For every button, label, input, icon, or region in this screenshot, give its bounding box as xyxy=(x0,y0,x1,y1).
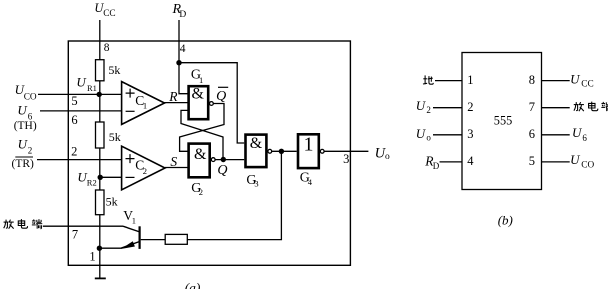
svg-text:Q: Q xyxy=(217,163,227,178)
label discharge terminal (b) xyxy=(574,102,608,112)
label U_2 xyxy=(18,136,33,155)
resistor R2 (5k) xyxy=(96,122,105,148)
wire pin 2 xyxy=(433,107,462,109)
wire pin 1 xyxy=(435,80,462,82)
label C2 xyxy=(135,157,147,176)
svg-text:5: 5 xyxy=(529,154,535,168)
svg-text:(TH): (TH) xyxy=(14,120,37,132)
wire R_D over to G3 input xyxy=(179,63,244,143)
wire R2 to node UR2 and on to R3 xyxy=(99,148,101,190)
svg-text:U: U xyxy=(416,126,427,141)
label U_6 (b) xyxy=(572,125,587,143)
label G3 xyxy=(246,173,258,189)
svg-text:&: & xyxy=(250,135,263,152)
svg-text:&: & xyxy=(194,146,207,163)
G2 output bubble xyxy=(211,158,215,162)
svg-text:1: 1 xyxy=(304,134,314,156)
svg-text:7: 7 xyxy=(529,100,535,114)
label U_6 (TH) xyxy=(17,102,32,121)
svg-text:2: 2 xyxy=(28,146,33,156)
wire R (C1 output to G1) xyxy=(165,102,188,104)
svg-text:1: 1 xyxy=(143,100,147,110)
svg-text:CO: CO xyxy=(581,161,594,171)
wire R1 to node UR1 xyxy=(99,81,101,95)
svg-text:555: 555 xyxy=(494,114,512,128)
svg-text:U: U xyxy=(570,71,581,86)
svg-text:S: S xyxy=(170,154,177,169)
svg-text:6: 6 xyxy=(71,113,77,127)
label G4 xyxy=(300,170,313,187)
wire G3 output to G4 xyxy=(272,150,297,152)
svg-text:5k: 5k xyxy=(106,195,118,209)
svg-text:7: 7 xyxy=(72,227,78,241)
svg-text:CO: CO xyxy=(24,92,37,102)
svg-text:U: U xyxy=(76,74,87,89)
label V1 xyxy=(123,208,136,225)
wire emitter to ground node xyxy=(99,247,121,249)
label C1 xyxy=(135,93,147,110)
svg-text:4: 4 xyxy=(308,177,313,187)
chip body 555 xyxy=(462,53,542,190)
gate G2 (NAND) xyxy=(189,144,210,178)
C1 minus sign xyxy=(126,110,135,112)
svg-text:CC: CC xyxy=(581,80,593,90)
wire node UR2 to C2 - input xyxy=(100,176,122,178)
label Q-bar xyxy=(216,87,228,104)
wire R3 down to ground node xyxy=(99,215,101,249)
gate G1 (NAND) xyxy=(189,86,209,119)
svg-text:6: 6 xyxy=(582,133,587,143)
label G2 xyxy=(191,181,203,197)
svg-text:8: 8 xyxy=(529,73,535,87)
svg-text:o: o xyxy=(426,132,431,142)
wire U_CC to resistor chain xyxy=(99,20,101,60)
svg-text:(a): (a) xyxy=(185,280,201,289)
label (TR) with overline xyxy=(12,157,35,170)
svg-text:Q: Q xyxy=(216,89,226,104)
svg-text:8: 8 xyxy=(104,42,110,54)
node UR2 (junction dot) xyxy=(98,175,103,180)
wire R_D down into box xyxy=(178,20,180,63)
wire pin 4 xyxy=(440,161,463,163)
wire Q-bar to G2 input (cross coupling) xyxy=(180,104,224,152)
C2 plus sign xyxy=(126,154,135,163)
wire base to resistor xyxy=(141,239,166,241)
svg-text:o: o xyxy=(385,152,390,162)
svg-text:2: 2 xyxy=(467,100,473,114)
svg-text:2: 2 xyxy=(426,105,431,115)
svg-text:1: 1 xyxy=(132,215,136,225)
wire R_D to G1 top input xyxy=(179,63,188,94)
svg-text:U: U xyxy=(570,152,581,167)
label ground (di) xyxy=(423,75,433,84)
label U_o (b) xyxy=(416,126,432,143)
wire pin 7 (discharge) to transistor collector xyxy=(43,225,123,227)
base resistor xyxy=(165,234,187,244)
C2 minus sign xyxy=(126,176,135,178)
wire pin 7 xyxy=(542,107,570,109)
svg-text:6: 6 xyxy=(529,127,535,141)
svg-text:2: 2 xyxy=(143,166,147,176)
svg-text:2: 2 xyxy=(71,144,77,158)
G3 output bubble xyxy=(268,149,272,153)
C1 plus sign xyxy=(126,89,135,98)
gate G4 (buffer) xyxy=(298,134,319,168)
label U_o (output) xyxy=(375,146,390,162)
wire Q output to G3 xyxy=(215,159,244,161)
wire pin 6 xyxy=(542,134,570,136)
node UR1 (junction dot) xyxy=(97,92,102,97)
svg-text:4: 4 xyxy=(180,43,186,55)
wire UR1 node down to R2 xyxy=(99,94,101,122)
node Q junction dot xyxy=(221,157,226,162)
label U_CC (supply) xyxy=(94,1,115,19)
label UR1 xyxy=(76,74,97,92)
label UR2 xyxy=(77,169,96,187)
label U_CO (control input) xyxy=(15,82,37,102)
label R_D (b) xyxy=(424,154,440,172)
comparator C2 xyxy=(122,146,165,190)
wire pin 5 xyxy=(542,161,570,163)
wire ground node down xyxy=(99,248,101,278)
node G3 output dot xyxy=(279,149,284,154)
wire S (C2 output to G2) xyxy=(165,167,188,169)
svg-text:3: 3 xyxy=(343,152,349,166)
label U_CO (b) xyxy=(570,152,594,171)
svg-text:5: 5 xyxy=(71,94,77,108)
label U_2 (b) xyxy=(416,98,431,115)
svg-text:R2: R2 xyxy=(87,178,97,188)
svg-text:1: 1 xyxy=(89,250,95,264)
wire output pin 3 xyxy=(324,150,368,152)
comparator C1 xyxy=(122,82,165,125)
svg-text:R1: R1 xyxy=(87,83,97,93)
svg-text:5k: 5k xyxy=(108,63,120,77)
wire G3 output down to base resistor xyxy=(187,151,281,239)
svg-text:U: U xyxy=(416,98,427,113)
G1 output bubble xyxy=(210,102,214,106)
svg-text:2: 2 xyxy=(199,187,203,197)
svg-text:1: 1 xyxy=(199,75,203,85)
wire pin 5 (control) to C1 + input xyxy=(38,93,122,95)
svg-text:D: D xyxy=(179,10,186,20)
svg-text:3: 3 xyxy=(254,179,258,189)
svg-text:CC: CC xyxy=(103,9,115,19)
wire pin 2 (trigger) to C2 + input xyxy=(37,159,122,161)
resistor R1 (5k) xyxy=(96,60,105,81)
label G1 xyxy=(191,68,203,86)
svg-text:4: 4 xyxy=(467,154,474,168)
node R_D junction dot xyxy=(176,60,181,65)
wire pin 8 xyxy=(542,80,570,82)
svg-text:5k: 5k xyxy=(109,130,121,144)
label R_D (reset) xyxy=(172,2,187,20)
label U_CC (b) xyxy=(570,71,594,89)
svg-text:(b): (b) xyxy=(498,212,513,227)
wire Q to G1 input (cross coupling) xyxy=(181,110,223,159)
wire pin 3 xyxy=(433,134,462,136)
svg-text:U: U xyxy=(572,125,583,140)
resistor R3 (5k) xyxy=(96,190,105,215)
svg-text:U: U xyxy=(17,102,28,117)
gate G3 (NAND) xyxy=(246,135,267,168)
svg-text:D: D xyxy=(433,161,440,171)
ground node dot xyxy=(97,246,102,251)
svg-text:(TR): (TR) xyxy=(12,158,35,170)
svg-text:1: 1 xyxy=(467,73,473,87)
outer box of 555 internal diagram xyxy=(68,41,350,265)
label discharge terminal (fang dian duan) xyxy=(4,219,43,229)
G4 output bubble xyxy=(320,149,324,153)
transistor V1 xyxy=(121,226,140,249)
svg-text:&: & xyxy=(192,86,205,103)
svg-text:3: 3 xyxy=(467,127,473,141)
svg-text:R: R xyxy=(168,89,178,104)
wire pin 6 (threshold) to C1 - input xyxy=(40,110,122,112)
ground symbol xyxy=(95,277,106,279)
